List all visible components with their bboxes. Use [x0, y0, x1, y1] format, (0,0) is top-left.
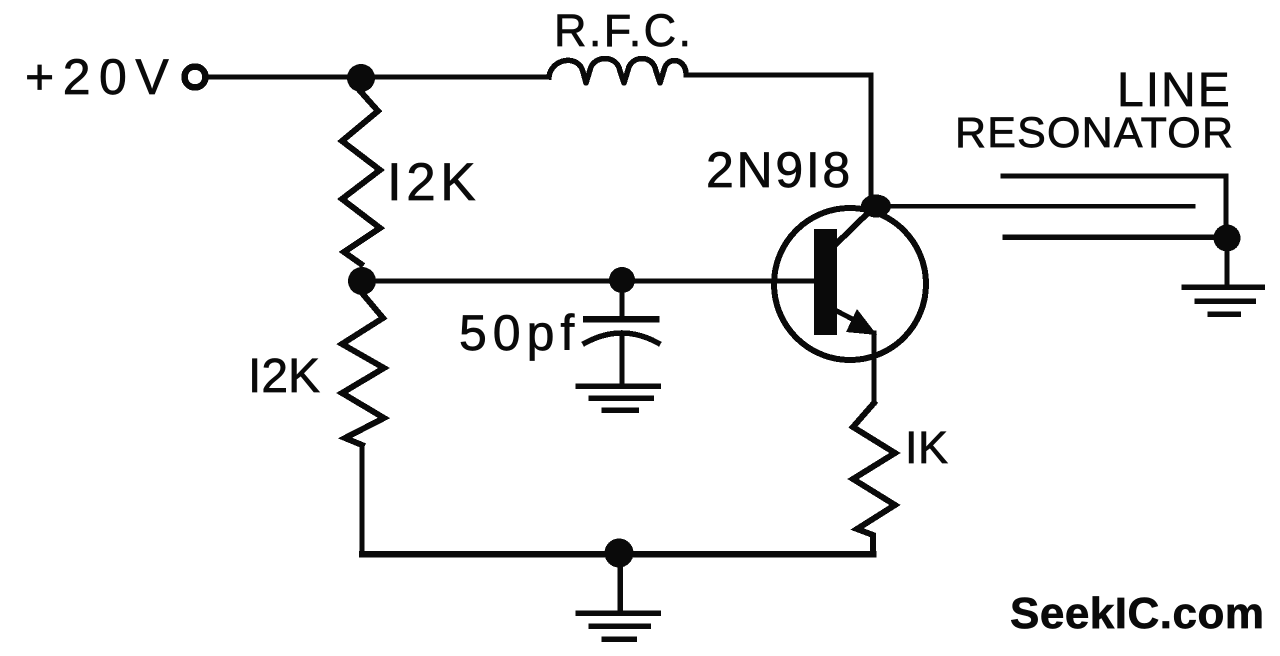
svg-text:RESONATOR: RESONATOR: [955, 109, 1234, 157]
svg-text:SeekIC.com: SeekIC.com: [1010, 589, 1264, 638]
inductor RFC: [549, 59, 686, 84]
resistor R3 1K: [853, 403, 895, 554]
wire RFC to collector node: [686, 75, 871, 198]
terminal +20V: [185, 67, 206, 88]
capacitor C1 top plate: [586, 316, 656, 323]
ground below resonator: [1184, 287, 1262, 314]
wire terminal to node A: [207, 74, 352, 79]
svg-text:R.F.C.: R.F.C.: [554, 5, 693, 56]
capacitor C1 curved plate: [585, 333, 658, 343]
svg-text:I2K: I2K: [387, 153, 480, 212]
bottom rail: [362, 551, 873, 558]
wire collector to resonator: [880, 204, 1193, 209]
wire node F to ground: [1224, 248, 1229, 285]
node D capacitor junction: [609, 267, 635, 293]
node B collector junction: [861, 195, 891, 218]
line resonator bottom conductor: [1005, 234, 1222, 240]
wire R2 to bottom rail: [359, 445, 364, 554]
node E rail junction: [605, 539, 634, 568]
line resonator top conductor: [1003, 176, 1226, 238]
transistor Q1 base bar: [814, 229, 837, 335]
svg-text:+20V: +20V: [25, 49, 177, 105]
ground below capacitor: [578, 386, 658, 410]
capacitor C1 bottom lead: [619, 336, 624, 383]
transistor Q1 2N918 body: [774, 208, 926, 360]
wire node A to RFC: [368, 74, 549, 79]
transistor Q1 emitter lead: [833, 309, 856, 321]
transistor Q1 collector lead: [834, 210, 871, 246]
emitter wire to R3: [871, 333, 876, 403]
node F resonator junction: [1214, 225, 1241, 252]
resistor R1 12K: [342, 92, 380, 264]
resistor R2 12K: [342, 293, 384, 445]
transistor Q1 emitter arrow: [846, 309, 877, 335]
svg-text:I2K: I2K: [248, 350, 320, 403]
node C base junction: [348, 267, 376, 295]
ground below rail: [578, 562, 658, 639]
wire base node C to transistor: [368, 278, 814, 283]
svg-text:50pf: 50pf: [459, 305, 580, 361]
svg-text:2N9I8: 2N9I8: [706, 142, 853, 198]
node A junction: [347, 64, 375, 92]
svg-text:IK: IK: [905, 422, 949, 473]
capacitor C1 50pf top lead: [619, 290, 624, 314]
